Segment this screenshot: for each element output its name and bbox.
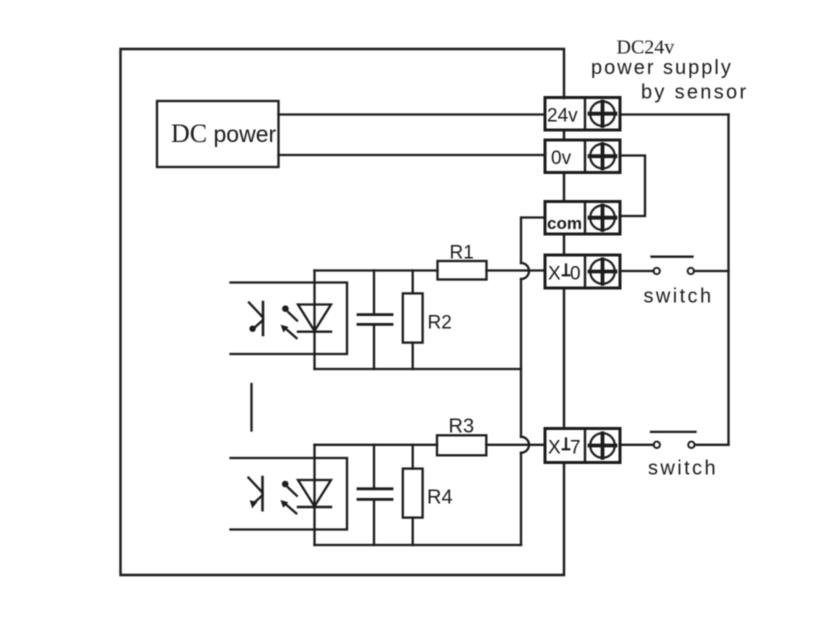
svg-text:R3: R3 xyxy=(449,415,475,437)
wire ch1 top rail xyxy=(315,269,438,271)
wire com bus middle segment xyxy=(520,279,522,437)
wire ch2 bottom rail xyxy=(315,544,522,546)
svg-text:X: X xyxy=(548,438,561,459)
LED D2 light arrows xyxy=(280,481,296,514)
wire DC power to 24v terminal xyxy=(279,113,546,115)
wire DC power to 0v terminal xyxy=(279,154,546,156)
label switch S2 xyxy=(648,458,718,480)
label X-0 tick mark xyxy=(563,265,570,276)
label R4 xyxy=(427,487,453,509)
phototransistor Q2 xyxy=(248,477,262,510)
label: DC power xyxy=(171,119,276,148)
svg-text:0v: 0v xyxy=(551,148,572,169)
label X-7 tick mark xyxy=(563,439,570,450)
terminal block X-7 xyxy=(545,429,620,463)
label R3 xyxy=(449,415,475,437)
LED D2 xyxy=(298,480,331,507)
terminal block com xyxy=(545,202,620,235)
enclosure PLC frame xyxy=(121,49,565,575)
switch S1 xyxy=(620,257,729,274)
label DC24v xyxy=(617,37,675,59)
svg-text:0: 0 xyxy=(570,264,581,285)
channel separator mark xyxy=(250,384,252,431)
wire right bus vertical xyxy=(727,115,729,445)
wire 24v terminal to right bus xyxy=(620,113,729,115)
hop: com bus over X7 input wire xyxy=(521,437,529,453)
label by sensor xyxy=(641,82,748,104)
wire ch1 bottom rail xyxy=(315,368,522,370)
terminal block 24v xyxy=(545,98,620,131)
label 0v xyxy=(551,148,572,169)
svg-text:7: 7 xyxy=(570,438,581,459)
capacitor C1 xyxy=(358,271,392,370)
switch S2 xyxy=(620,432,729,448)
svg-text:switch: switch xyxy=(644,286,714,308)
optocoupler U1 package box xyxy=(231,283,348,355)
wire R1 to X-0 terminal xyxy=(487,269,546,271)
LED D1 xyxy=(298,305,331,332)
svg-text:X: X xyxy=(548,264,561,285)
label R2 xyxy=(428,313,452,334)
svg-text:24v: 24v xyxy=(547,106,578,127)
hop: com bus over X0 input wire xyxy=(521,263,529,279)
label 24v xyxy=(547,106,578,127)
DC power box xyxy=(157,101,279,167)
svg-text:switch: switch xyxy=(648,458,718,480)
label R1 xyxy=(450,243,474,264)
optocoupler U2 package box xyxy=(231,458,348,530)
terminal block 0v xyxy=(545,140,620,173)
resistor R4 xyxy=(403,445,423,545)
label switch S1 xyxy=(644,286,714,308)
svg-text:R4: R4 xyxy=(427,487,453,509)
phototransistor Q1 xyxy=(249,302,263,335)
svg-text:R2: R2 xyxy=(428,313,452,334)
terminal block X-0 xyxy=(545,255,620,288)
svg-text:power supply: power supply xyxy=(591,57,733,79)
capacitor C2 xyxy=(358,445,392,545)
wire ch2 left drop with LED xyxy=(313,445,315,545)
wire com to left bus xyxy=(521,218,545,264)
label power supply xyxy=(591,57,733,79)
svg-text:DC power: DC power xyxy=(171,119,276,148)
svg-text:DC24v: DC24v xyxy=(617,37,675,59)
label com xyxy=(547,214,582,233)
resistor R1 xyxy=(438,261,487,280)
resistor R2 xyxy=(403,271,423,370)
label X-0 xyxy=(548,264,581,285)
wire com bus lower segment xyxy=(520,453,522,545)
svg-text:by sensor: by sensor xyxy=(641,82,748,104)
LED D1 light arrows xyxy=(281,305,297,338)
wire ch1 left drop with LED xyxy=(313,271,315,370)
label X-7 xyxy=(548,438,581,459)
svg-text:com: com xyxy=(547,214,582,233)
wire R3 to X-7 terminal xyxy=(486,444,545,446)
resistor R3 xyxy=(437,435,486,455)
svg-text:R1: R1 xyxy=(450,243,474,264)
wire 0v to com link xyxy=(620,156,645,217)
wire ch2 top rail xyxy=(315,444,438,446)
